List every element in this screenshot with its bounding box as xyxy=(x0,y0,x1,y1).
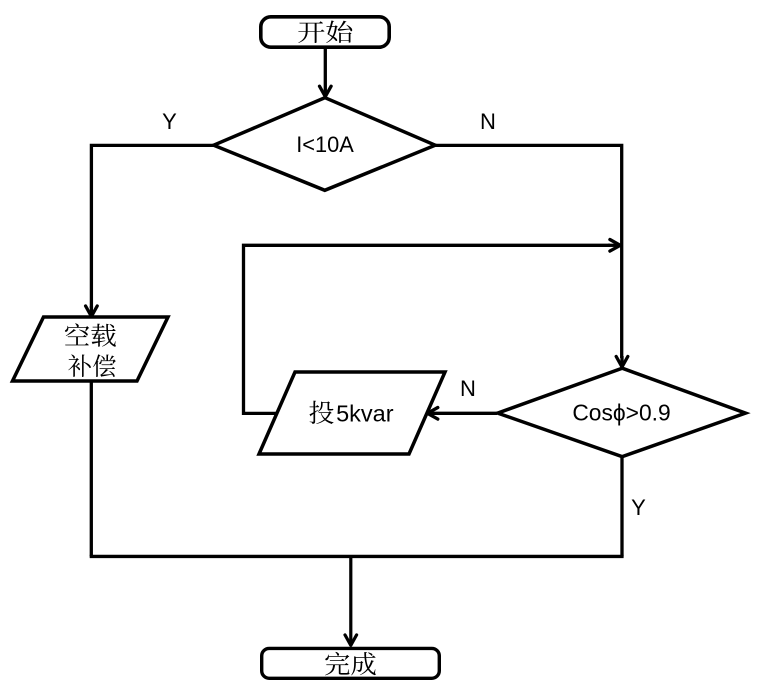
svg-text:N: N xyxy=(460,376,476,401)
terminator 完成 (done) xyxy=(262,648,440,678)
decision I<10A diamond xyxy=(214,98,436,191)
wire I<10A left to 空载补偿 with arrowhead xyxy=(86,145,214,316)
svg-text:Y: Y xyxy=(631,495,646,520)
svg-text:N: N xyxy=(480,109,496,134)
process 空载补偿 parallelogram xyxy=(13,317,169,381)
wire I<10A right to Cosφ diamond with arrowhead xyxy=(435,145,628,367)
svg-text:Cosϕ>0.9: Cosϕ>0.9 xyxy=(572,399,670,425)
wire feedback loop from 投5kvar to vertical line with arrowhead xyxy=(244,240,621,414)
svg-text:I<10A: I<10A xyxy=(296,132,354,157)
process 投5kvar parallelogram xyxy=(259,372,445,454)
wire 空载补偿 down to bottom join xyxy=(90,381,93,556)
wire bottom join horizontal xyxy=(90,555,624,558)
wire join down to 完成 with arrowhead xyxy=(345,556,357,645)
wire Cosφ down to bottom join xyxy=(620,457,623,557)
svg-text:5kvar: 5kvar xyxy=(336,401,394,427)
decision Cosф>0.9 diamond xyxy=(498,368,746,456)
svg-text:Y: Y xyxy=(162,109,177,134)
terminator 开始 (start) xyxy=(261,17,389,47)
wire Cosφ left to 投5kvar with arrowhead xyxy=(427,408,497,420)
wire start to I<10A with arrowhead xyxy=(320,47,332,97)
